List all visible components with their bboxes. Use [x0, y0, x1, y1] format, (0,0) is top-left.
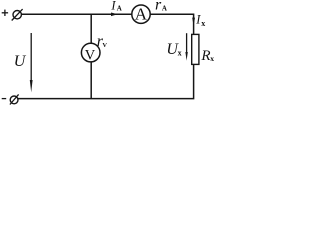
- svg-text:x: x: [201, 19, 205, 28]
- svg-text:I: I: [110, 0, 116, 12]
- svg-text:x: x: [178, 49, 182, 58]
- svg-text:R: R: [200, 48, 210, 64]
- svg-text:A: A: [117, 5, 122, 13]
- svg-text:A: A: [162, 5, 167, 13]
- svg-text:V: V: [102, 42, 107, 49]
- svg-text:A: A: [135, 5, 148, 24]
- svg-text:V: V: [85, 47, 96, 63]
- svg-text:x: x: [210, 54, 214, 63]
- svg-text:U: U: [14, 53, 27, 70]
